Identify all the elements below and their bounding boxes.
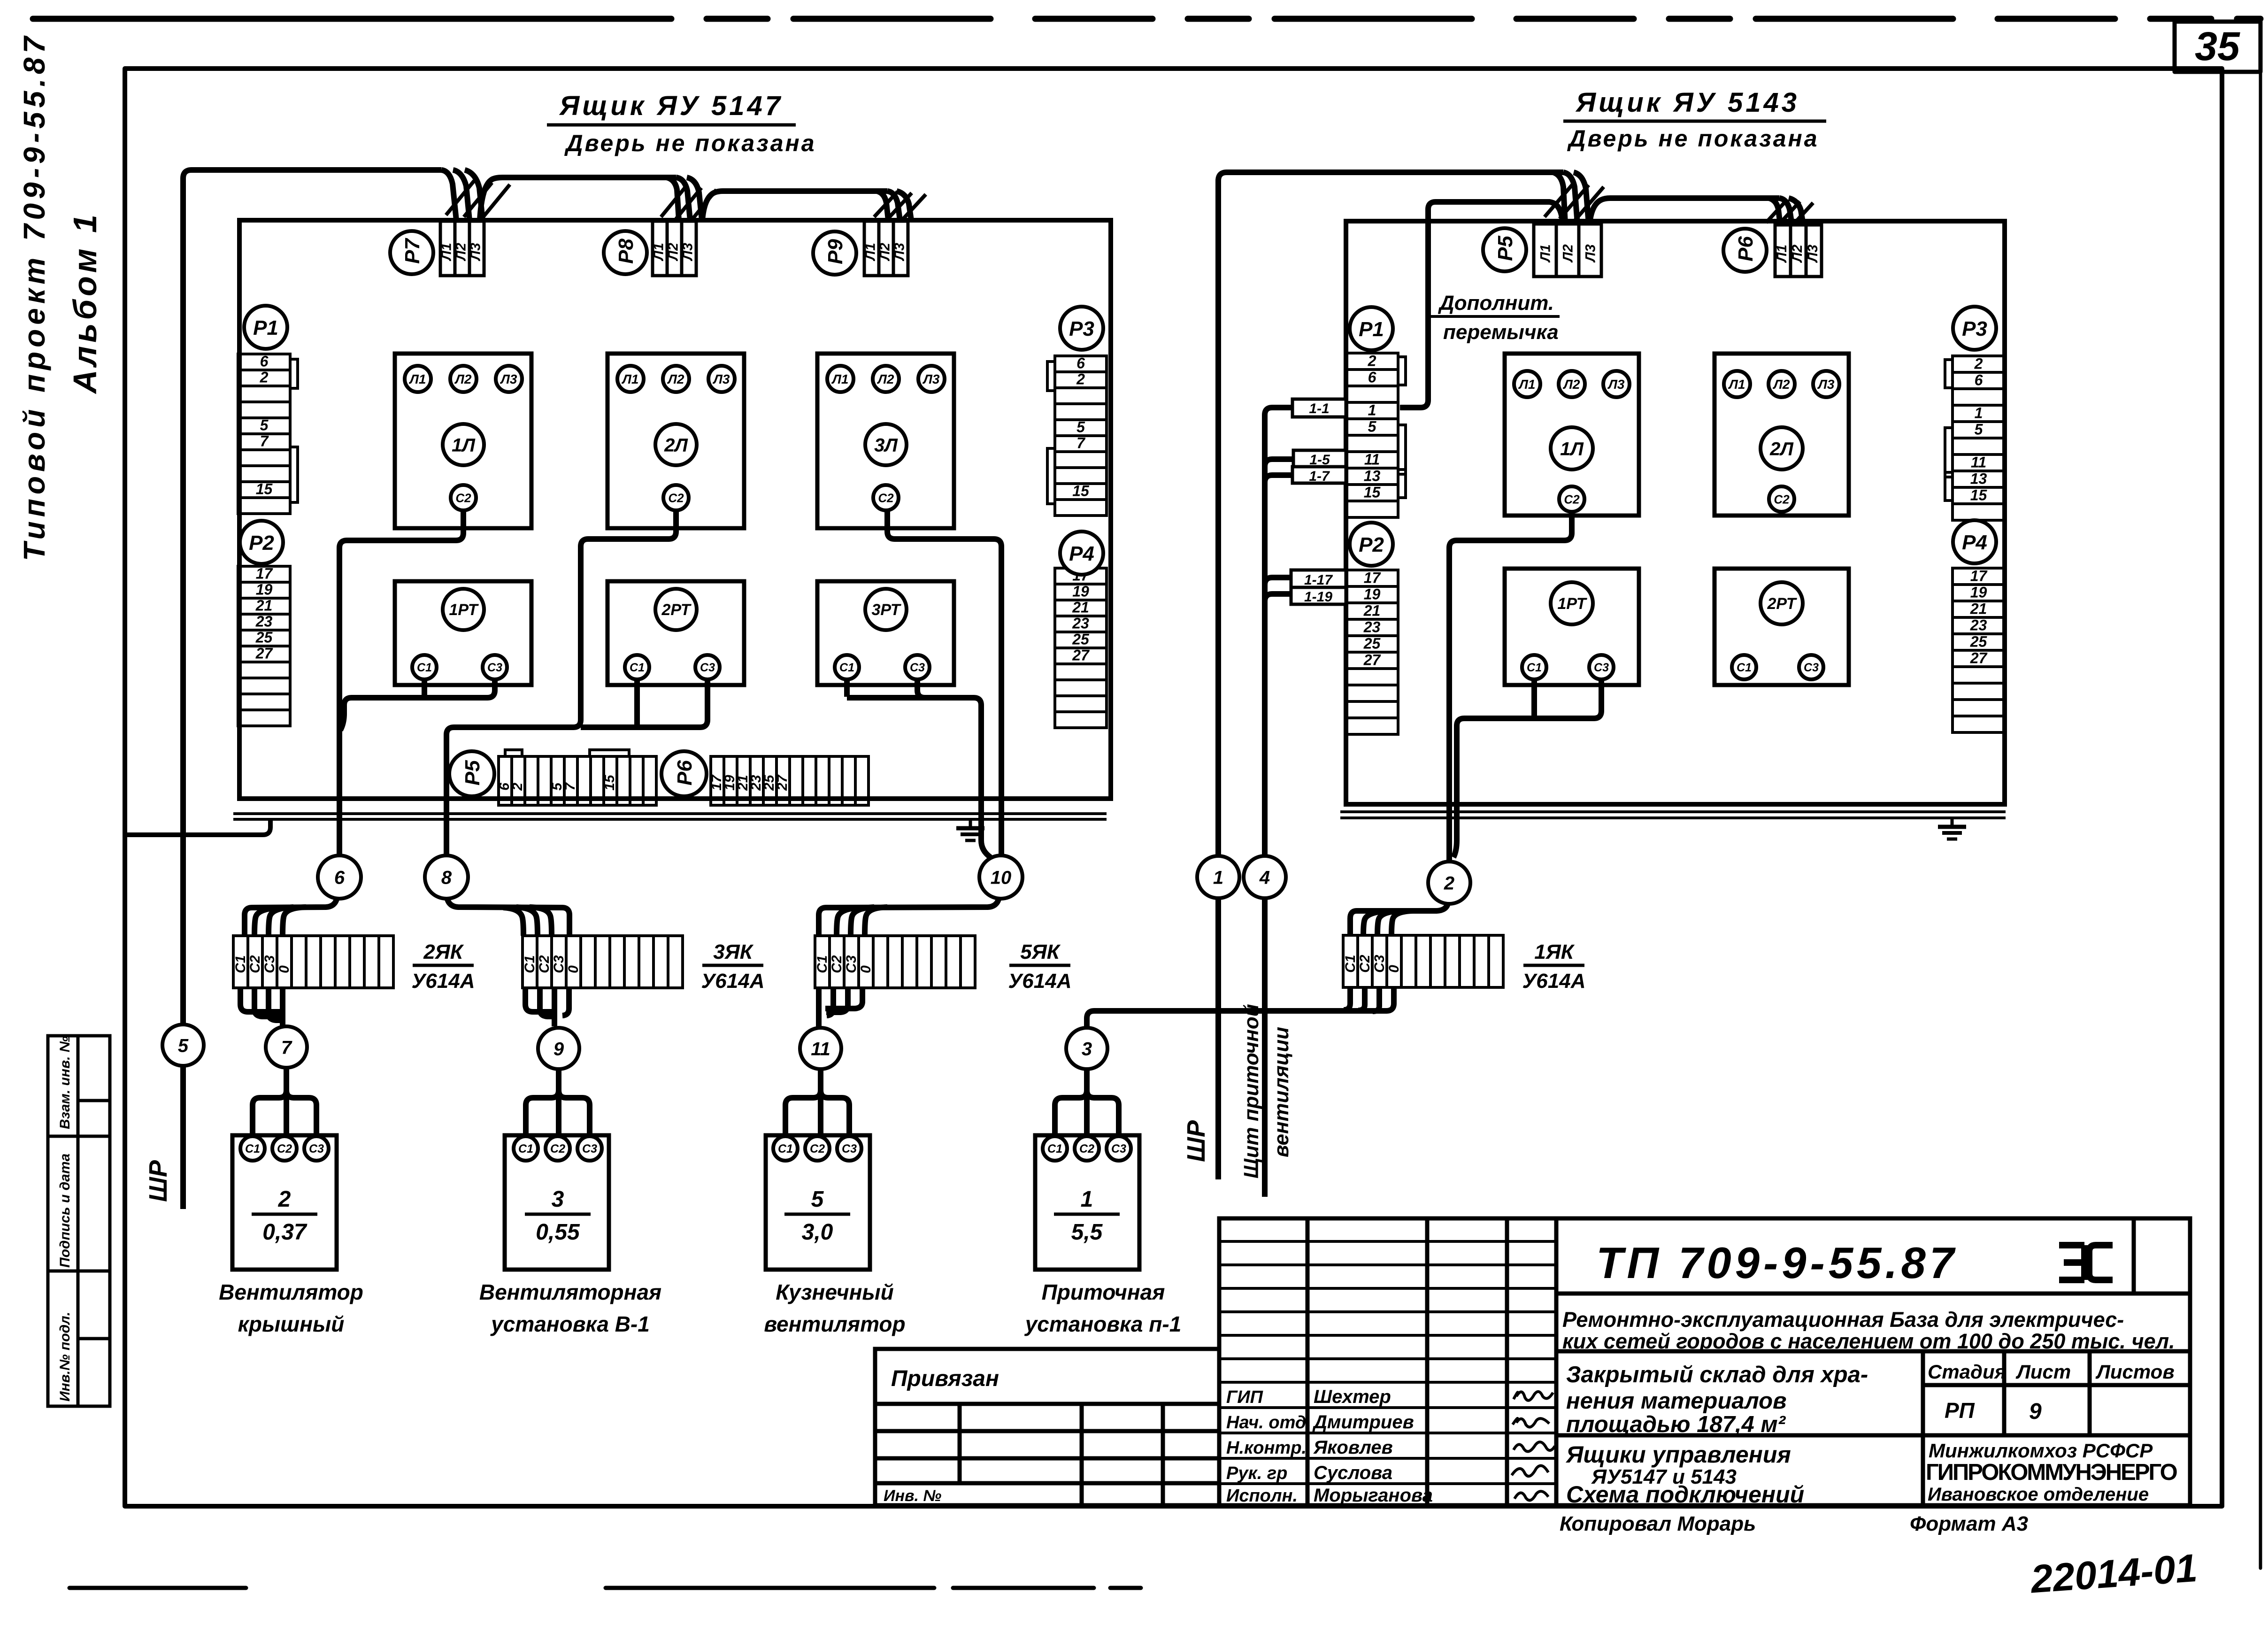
svg-text:1РТ: 1РТ [449, 601, 479, 619]
svg-text:вентилятор: вентилятор [764, 1312, 905, 1336]
svg-text:Л2: Л2 [453, 243, 469, 262]
svg-text:С1: С1 [233, 955, 248, 973]
svg-text:У614А: У614А [701, 970, 765, 993]
svg-text:9: 9 [2029, 1399, 2042, 1424]
svg-text:Л2: Л2 [1563, 377, 1580, 392]
svg-text:У614А: У614А [1008, 970, 1072, 993]
svg-text:19: 19 [1072, 583, 1089, 600]
svg-text:ГИПРОКОММУНЭНЕРГО: ГИПРОКОММУНЭНЕРГО [1926, 1460, 2177, 1485]
svg-text:С1: С1 [245, 1142, 260, 1155]
svg-text:11: 11 [1971, 454, 1986, 470]
svg-text:2РТ: 2РТ [661, 601, 692, 619]
svg-text:13: 13 [1970, 470, 1987, 487]
svg-text:Лист: Лист [2015, 1361, 2071, 1383]
svg-text:5: 5 [1368, 418, 1377, 435]
svg-text:С1: С1 [778, 1142, 793, 1155]
svg-text:ГИП: ГИП [1226, 1387, 1263, 1407]
svg-text:Л1: Л1 [831, 372, 849, 386]
svg-text:7: 7 [562, 782, 578, 791]
svg-text:Л2: Л2 [454, 372, 472, 386]
svg-text:крышный: крышный [238, 1312, 345, 1336]
svg-text:2: 2 [1368, 352, 1376, 369]
svg-text:27: 27 [255, 645, 274, 662]
svg-text:6: 6 [260, 353, 269, 370]
svg-text:17: 17 [1364, 569, 1382, 586]
svg-text:Л3: Л3 [892, 243, 907, 262]
svg-text:Л1: Л1 [622, 372, 639, 386]
svg-text:Нач. отд.: Нач. отд. [1226, 1413, 1311, 1432]
svg-text:Л3: Л3 [1607, 377, 1625, 392]
svg-text:25: 25 [255, 629, 273, 646]
svg-text:Ремонтно-эксплуатационная База: Ремонтно-эксплуатационная База для элект… [1562, 1308, 2124, 1332]
svg-text:Р4: Р4 [1069, 542, 1094, 565]
svg-text:С1: С1 [1343, 955, 1358, 973]
svg-text:С3: С3 [1111, 1142, 1126, 1155]
svg-text:установка п-1: установка п-1 [1024, 1312, 1182, 1336]
svg-text:15: 15 [1072, 483, 1090, 500]
svg-text:Л1: Л1 [438, 243, 454, 261]
svg-text:С2: С2 [1079, 1142, 1094, 1155]
svg-text:1-17: 1-17 [1304, 572, 1333, 588]
svg-text:Л2: Л2 [665, 243, 681, 262]
svg-text:25: 25 [1363, 635, 1381, 652]
svg-text:1Л: 1Л [452, 435, 476, 455]
svg-text:19: 19 [256, 581, 273, 598]
svg-text:Р9: Р9 [824, 239, 847, 264]
svg-text:Л1: Л1 [409, 372, 426, 386]
svg-text:Р3: Р3 [1069, 317, 1094, 340]
svg-text:Р8: Р8 [615, 239, 638, 264]
svg-text:2: 2 [1974, 355, 1983, 372]
svg-text:Л2: Л2 [667, 372, 684, 386]
svg-text:Л3: Л3 [1583, 244, 1599, 263]
svg-text:С3: С3 [700, 661, 715, 674]
svg-text:0: 0 [566, 965, 581, 973]
svg-text:21: 21 [1970, 600, 1987, 617]
svg-text:Р5: Р5 [1494, 236, 1517, 261]
svg-text:С3: С3 [551, 955, 567, 973]
svg-text:С2: С2 [1357, 955, 1373, 973]
svg-text:С2: С2 [878, 491, 894, 505]
svg-text:Р1: Р1 [253, 316, 278, 339]
svg-text:1: 1 [1081, 1187, 1093, 1212]
svg-text:У614А: У614А [1522, 970, 1586, 993]
svg-text:27: 27 [1363, 651, 1382, 668]
svg-text:Л3: Л3 [923, 372, 940, 386]
svg-text:С1: С1 [1047, 1142, 1062, 1155]
svg-text:Формат А3: Формат А3 [1910, 1512, 2028, 1535]
svg-text:0: 0 [1386, 965, 1402, 973]
svg-text:Приточная: Приточная [1042, 1280, 1165, 1304]
svg-text:ТП 709-9-55.87: ТП 709-9-55.87 [1596, 1238, 1958, 1287]
svg-text:17: 17 [1970, 567, 1988, 584]
svg-text:2: 2 [510, 783, 525, 791]
svg-text:С1: С1 [522, 955, 538, 973]
svg-text:С2: С2 [247, 955, 263, 973]
svg-text:1-1: 1-1 [1309, 401, 1329, 416]
svg-text:2: 2 [1444, 873, 1454, 893]
svg-text:2Л: 2Л [664, 435, 688, 455]
svg-text:15: 15 [256, 481, 273, 498]
svg-text:27: 27 [775, 774, 790, 791]
svg-text:С2: С2 [668, 491, 684, 505]
svg-text:11: 11 [1364, 451, 1380, 468]
svg-text:С2: С2 [537, 955, 552, 973]
svg-text:Р4: Р4 [1962, 531, 1987, 554]
svg-text:1Л: 1Л [1560, 439, 1584, 459]
svg-text:С1: С1 [815, 955, 830, 973]
svg-text:2ЯК: 2ЯК [423, 940, 464, 963]
svg-text:Яковлев: Яковлев [1313, 1437, 1393, 1458]
svg-text:Ящик ЯУ 5147: Ящик ЯУ 5147 [559, 91, 783, 121]
svg-text:2: 2 [260, 369, 269, 386]
svg-text:Р2: Р2 [1359, 533, 1384, 556]
svg-text:23: 23 [1970, 616, 1987, 633]
svg-text:Л1: Л1 [1538, 244, 1553, 262]
svg-text:23: 23 [1363, 618, 1381, 635]
svg-text:вентиляции: вентиляции [1270, 1027, 1293, 1157]
svg-text:1ЯК: 1ЯК [1534, 940, 1575, 963]
svg-text:С2: С2 [277, 1142, 292, 1155]
svg-text:1-19: 1-19 [1304, 589, 1332, 605]
svg-text:Л3: Л3 [1817, 377, 1835, 392]
svg-text:С3: С3 [487, 661, 502, 674]
svg-text:С1: С1 [630, 661, 645, 674]
svg-text:С3: С3 [1372, 955, 1387, 973]
svg-text:С1: С1 [518, 1142, 533, 1155]
svg-text:7: 7 [1076, 435, 1086, 452]
svg-text:Дополнит.: Дополнит. [1438, 292, 1554, 315]
svg-text:Морыганова: Морыганова [1314, 1485, 1433, 1506]
svg-text:5: 5 [178, 1035, 189, 1056]
svg-text:13: 13 [1364, 467, 1381, 484]
svg-text:Ящики управления: Ящики управления [1565, 1441, 1791, 1468]
svg-text:Типовой проект 709-9-55.87: Типовой проект 709-9-55.87 [17, 32, 51, 561]
svg-text:Р2: Р2 [249, 531, 274, 555]
svg-text:2РТ: 2РТ [1767, 595, 1797, 613]
svg-text:Р7: Р7 [401, 238, 424, 264]
svg-text:4: 4 [1259, 867, 1270, 888]
svg-text:9: 9 [554, 1039, 564, 1059]
svg-text:0: 0 [858, 965, 874, 973]
svg-text:Л1: Л1 [651, 243, 666, 261]
svg-text:Ивановское отделение: Ивановское отделение [1928, 1484, 2149, 1505]
svg-text:27: 27 [1072, 647, 1090, 664]
svg-text:Взам. инв. №: Взам. инв. № [57, 1036, 73, 1129]
svg-text:1: 1 [1975, 404, 1983, 421]
svg-text:35: 35 [2195, 24, 2240, 69]
svg-text:2: 2 [1076, 371, 1085, 388]
svg-text:Закрытый склад для хра-: Закрытый склад для хра- [1566, 1362, 1868, 1387]
svg-text:Р6: Р6 [673, 760, 696, 786]
svg-text:Ящик ЯУ 5143: Ящик ЯУ 5143 [1575, 87, 1799, 118]
svg-text:С2: С2 [1774, 492, 1790, 506]
svg-text:Л3: Л3 [680, 243, 695, 262]
svg-text:3: 3 [552, 1187, 564, 1212]
svg-text:Л3: Л3 [500, 372, 517, 386]
svg-text:1-5: 1-5 [1309, 452, 1330, 468]
svg-text:Л3: Л3 [468, 243, 483, 262]
svg-text:2Л: 2Л [1769, 439, 1794, 459]
svg-text:С3: С3 [262, 955, 277, 973]
svg-text:ШР: ШР [144, 1160, 172, 1202]
svg-text:Л2: Л2 [1773, 377, 1790, 392]
svg-text:Р5: Р5 [461, 760, 484, 786]
svg-text:С2: С2 [550, 1142, 565, 1155]
svg-text:установка В-1: установка В-1 [490, 1312, 650, 1336]
svg-text:5,5: 5,5 [1071, 1220, 1103, 1245]
svg-text:15: 15 [1364, 484, 1381, 501]
svg-text:6: 6 [1975, 371, 1983, 388]
svg-text:С3: С3 [842, 1142, 857, 1155]
svg-text:5: 5 [260, 417, 269, 434]
svg-text:21: 21 [1363, 602, 1381, 619]
svg-text:Привязан: Привязан [891, 1366, 999, 1391]
svg-text:5: 5 [811, 1187, 824, 1212]
svg-text:1-7: 1-7 [1309, 469, 1330, 484]
svg-text:15: 15 [1970, 486, 1988, 503]
svg-text:5: 5 [1975, 421, 1984, 438]
svg-text:21: 21 [1072, 599, 1089, 616]
svg-text:3,0: 3,0 [802, 1220, 833, 1245]
svg-text:6: 6 [1368, 369, 1376, 385]
svg-text:Инв.№ подл.: Инв.№ подл. [57, 1312, 73, 1402]
svg-text:7: 7 [281, 1037, 292, 1058]
svg-text:С3: С3 [582, 1142, 597, 1155]
svg-text:С1: С1 [1737, 661, 1752, 674]
svg-text:3Л: 3Л [874, 435, 898, 455]
svg-text:25: 25 [1970, 633, 1988, 650]
svg-text:Л1: Л1 [862, 243, 878, 261]
svg-text:нения материалов: нения материалов [1566, 1388, 1787, 1414]
svg-text:С3: С3 [910, 661, 925, 674]
svg-text:Инв. №: Инв. № [884, 1487, 941, 1505]
svg-text:Копировал Морарь: Копировал Морарь [1560, 1512, 1756, 1535]
svg-text:площадью 187,4 м²: площадью 187,4 м² [1566, 1412, 1786, 1437]
svg-text:23: 23 [1072, 615, 1089, 632]
svg-text:8: 8 [441, 867, 452, 888]
svg-text:Исполн.: Исполн. [1226, 1486, 1298, 1506]
svg-text:0: 0 [277, 965, 292, 973]
svg-text:7: 7 [260, 433, 269, 450]
svg-text:Дверь не показана: Дверь не показана [564, 130, 816, 156]
svg-text:Л2: Л2 [1561, 244, 1576, 263]
svg-text:3ЯК: 3ЯК [713, 940, 754, 963]
svg-text:Л2: Л2 [877, 372, 894, 386]
svg-text:С1: С1 [839, 661, 854, 674]
svg-text:Подпись и дата: Подпись и дата [57, 1154, 73, 1268]
svg-text:Щит приточной: Щит приточной [1240, 1004, 1263, 1178]
svg-text:0,55: 0,55 [536, 1220, 580, 1245]
svg-text:С2: С2 [455, 491, 471, 505]
svg-text:Рук. гр: Рук. гр [1226, 1463, 1287, 1483]
svg-text:перемычка: перемычка [1443, 321, 1559, 344]
svg-text:Схема подключений: Схема подключений [1566, 1481, 1804, 1508]
svg-text:Кузнечный: Кузнечный [776, 1280, 894, 1304]
svg-text:ких сетей городов с населением: ких сетей городов с населением от 100 до… [1562, 1329, 2175, 1353]
svg-text:Альбом 1: Альбом 1 [67, 211, 103, 394]
svg-text:Л3: Л3 [1805, 245, 1821, 263]
svg-text:1: 1 [1368, 401, 1376, 418]
svg-text:25: 25 [1072, 631, 1090, 648]
svg-text:Л3: Л3 [713, 372, 730, 386]
svg-text:27: 27 [1970, 649, 1988, 666]
svg-text:Р1: Р1 [1359, 318, 1384, 341]
svg-text:У614А: У614А [412, 970, 475, 993]
svg-text:С2: С2 [1564, 492, 1580, 506]
svg-text:Л2: Л2 [1790, 245, 1805, 263]
svg-text:Суслова: Суслова [1314, 1463, 1392, 1483]
svg-text:Стадия: Стадия [1928, 1361, 2006, 1383]
svg-text:21: 21 [255, 597, 273, 614]
svg-text:Вентилятор: Вентилятор [219, 1280, 363, 1304]
svg-text:С3: С3 [844, 955, 859, 973]
svg-text:ШР: ШР [1182, 1120, 1210, 1162]
svg-text:Листов: Листов [2095, 1361, 2175, 1383]
svg-text:2: 2 [278, 1187, 291, 1212]
svg-text:Дверь не показана: Дверь не показана [1567, 125, 1819, 152]
svg-text:С2: С2 [829, 955, 845, 973]
svg-text:19: 19 [1364, 585, 1381, 602]
svg-text:17: 17 [256, 565, 274, 582]
svg-text:С3: С3 [309, 1142, 324, 1155]
svg-text:1: 1 [1213, 867, 1223, 888]
svg-text:Р3: Р3 [1962, 317, 1987, 340]
svg-text:3РТ: 3РТ [871, 601, 901, 619]
svg-text:Л2: Л2 [877, 243, 892, 262]
svg-text:Л1: Л1 [1518, 377, 1536, 392]
svg-text:5ЯК: 5ЯК [1020, 940, 1061, 963]
svg-text:19: 19 [1970, 584, 1987, 601]
svg-text:6: 6 [334, 867, 345, 888]
svg-text:С1: С1 [417, 661, 432, 674]
svg-text:Л1: Л1 [1728, 377, 1745, 392]
svg-text:3: 3 [1082, 1039, 1092, 1059]
svg-text:0,37: 0,37 [262, 1220, 308, 1245]
svg-text:15: 15 [602, 774, 617, 791]
svg-text:Вентиляторная: Вентиляторная [479, 1280, 661, 1304]
svg-text:Н.контр.: Н.контр. [1226, 1438, 1307, 1458]
svg-text:11: 11 [811, 1039, 830, 1059]
svg-text:1РТ: 1РТ [1557, 595, 1587, 613]
svg-text:10: 10 [991, 867, 1012, 888]
svg-text:6: 6 [1076, 355, 1085, 372]
svg-text:5: 5 [1076, 419, 1085, 436]
svg-text:Дмитриев: Дмитриев [1312, 1412, 1414, 1432]
svg-text:Л1: Л1 [1774, 245, 1790, 263]
svg-text:23: 23 [255, 613, 273, 630]
svg-text:РП: РП [1945, 1398, 1975, 1423]
svg-text:С3: С3 [1804, 661, 1819, 674]
svg-text:Шехтер: Шехтер [1314, 1386, 1391, 1407]
svg-text:Р6: Р6 [1734, 236, 1757, 262]
svg-text:С1: С1 [1527, 661, 1542, 674]
svg-text:С2: С2 [810, 1142, 825, 1155]
svg-text:Минжилкомхоз РСФСР: Минжилкомхоз РСФСР [1929, 1440, 2153, 1462]
svg-text:С3: С3 [1594, 661, 1609, 674]
